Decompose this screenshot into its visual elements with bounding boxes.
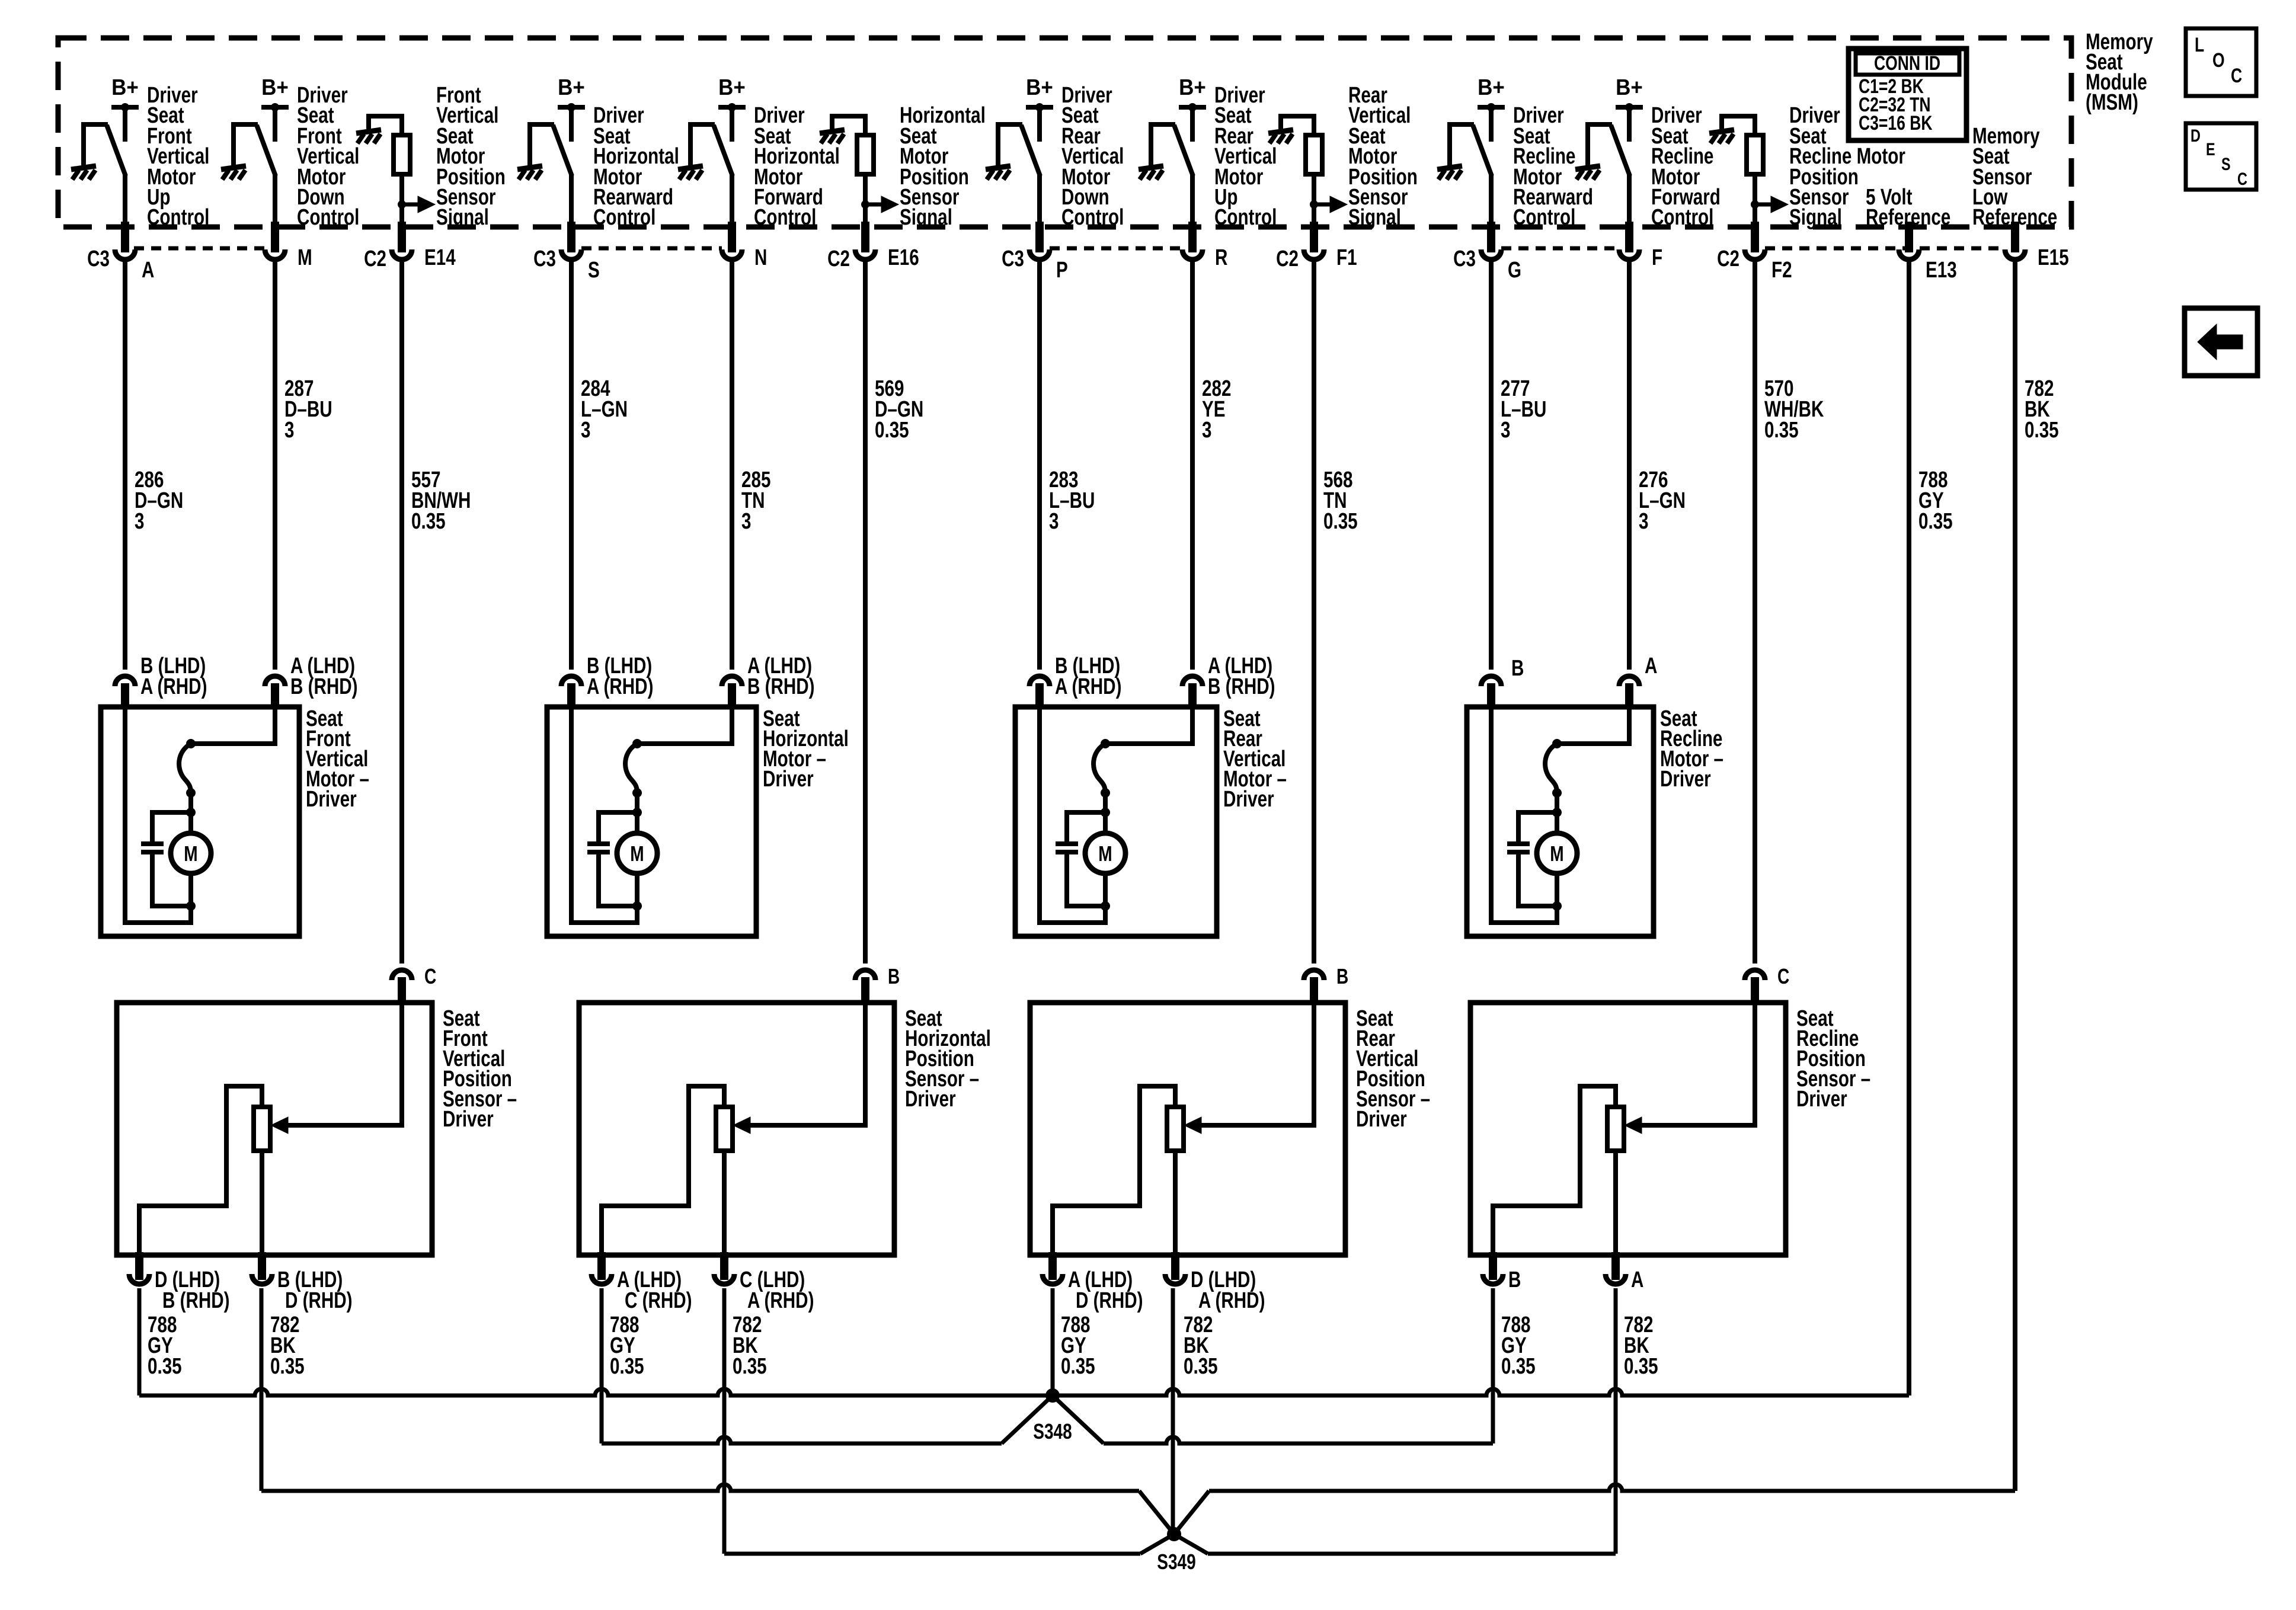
svg-text:Control: Control: [1651, 205, 1713, 230]
MSM connector pin G: [1487, 222, 1495, 252]
svg-text:Control: Control: [1061, 205, 1124, 230]
svg-text:C2: C2: [1276, 247, 1299, 271]
potentiometer resistor: [1607, 1107, 1624, 1151]
motor suppression capacitor: [1056, 841, 1078, 846]
svg-text:B: B: [1508, 1267, 1521, 1292]
svg-text:0.35: 0.35: [411, 509, 446, 534]
MSM connector pin M: [271, 222, 279, 252]
svg-text:3: 3: [741, 509, 751, 534]
motor suppression capacitor: [141, 841, 164, 846]
wire 284 L–GN from pin: [569, 262, 574, 670]
svg-text:Control: Control: [297, 205, 359, 230]
svg-text:D (RHD): D (RHD): [285, 1288, 353, 1313]
sensor input connector pin for Seat Rear Vertical Position Sensor – Driver: [1304, 970, 1324, 980]
motor connector pins Seat Recline Motor – Driver: [1481, 676, 1501, 686]
motor return wire: [125, 707, 191, 923]
svg-text:B+: B+: [111, 75, 139, 100]
motor armature circle M: [1537, 833, 1577, 873]
MSM connector pin P: [1035, 222, 1044, 252]
svg-text:P: P: [1056, 258, 1068, 283]
svg-text:Driver: Driver: [1223, 787, 1274, 812]
svg-text:B+: B+: [558, 75, 585, 100]
splice S349: [1167, 1527, 1181, 1541]
svg-text:C2: C2: [827, 247, 850, 271]
CONN ID table box: [1849, 49, 1966, 140]
MSM connector pin R: [1188, 222, 1197, 252]
GY bus from sensor1-D to E13: [139, 1389, 1909, 1395]
svg-text:B: B: [888, 965, 900, 988]
svg-text:B+: B+: [1026, 75, 1053, 100]
svg-text:N: N: [754, 245, 767, 270]
sensor output pins: [1048, 1252, 1057, 1280]
svg-text:E14: E14: [424, 245, 456, 270]
S349 diagonal upper-right: [1174, 1491, 1209, 1534]
svg-text:R: R: [1215, 245, 1227, 270]
BK branch right to sensor4-A: [1208, 1552, 1616, 1556]
wire 782 BK sensor3 pin D down to S349: [1171, 1288, 1175, 1534]
potentiometer resistor: [716, 1107, 733, 1151]
svg-text:E15: E15: [2038, 245, 2069, 270]
back-arrow legend box: [2185, 308, 2257, 376]
S349 diagonal upper-left: [1139, 1491, 1174, 1534]
wire 568 TN from pin: [1312, 262, 1316, 964]
svg-text:B (RHD): B (RHD): [162, 1288, 230, 1313]
BK branch left from sensor2-C: [724, 1552, 1140, 1556]
motor box Seat Recline Motor – Driver: [1467, 707, 1654, 936]
svg-text:O: O: [2212, 49, 2225, 72]
wire 570 WH/BK from pin: [1753, 262, 1757, 964]
Memory Seat Module (MSM) dashed outline box: [58, 38, 2071, 227]
svg-text:C2: C2: [364, 247, 386, 271]
svg-text:CONN ID: CONN ID: [1874, 52, 1940, 75]
MSM connector pin S: [567, 222, 575, 252]
motor armature circle M: [617, 833, 657, 873]
svg-text:C3: C3: [533, 247, 556, 271]
potentiometer wiper arrow: [749, 986, 865, 1125]
motor armature circle M: [171, 833, 211, 873]
MSM connector pin F1: [1310, 222, 1318, 252]
potentiometer element wiring: [1053, 1086, 1175, 1255]
sensor signal circuit Rear Vertical Seat Motor Position Sensor Signal: [1281, 116, 1314, 135]
svg-text:B (RHD): B (RHD): [1208, 674, 1275, 699]
motor commutator curve: [179, 744, 191, 793]
svg-text:3: 3: [284, 418, 294, 443]
svg-text:B: B: [1511, 656, 1524, 681]
svg-text:M: M: [184, 842, 197, 866]
svg-text:L: L: [2195, 34, 2204, 56]
svg-text:Driver: Driver: [1356, 1107, 1407, 1132]
S349 diagonal lower-right: [1174, 1534, 1208, 1554]
motor return wire: [1040, 707, 1105, 923]
motor connector pins Seat Rear Vertical Motor – Driver: [1029, 676, 1050, 686]
sensor signal circuit Horizontal Seat Motor Position Sensor Signal: [832, 116, 865, 135]
MSM connector pin E13: [1905, 222, 1913, 252]
svg-text:Control: Control: [593, 205, 655, 230]
svg-text:B+: B+: [718, 75, 746, 100]
sensor box Seat Horizontal Position Sensor – Driver: [579, 1003, 894, 1255]
svg-text:F: F: [1652, 245, 1662, 270]
svg-text:A (RHD): A (RHD): [140, 674, 207, 699]
svg-text:S: S: [2221, 154, 2231, 174]
S348 diagonal to left GY branch: [1002, 1395, 1053, 1443]
motor box Seat Front Vertical Motor – Driver: [101, 707, 299, 936]
GY branch right to sensor4-B: [1104, 1437, 1493, 1443]
potentiometer wiper arrow: [1200, 986, 1314, 1125]
svg-text:0.35: 0.35: [1624, 1354, 1658, 1379]
motor suppression capacitor: [587, 841, 610, 846]
wire 782 BK sensor4 pin A down: [1614, 1288, 1618, 1554]
svg-text:3: 3: [135, 509, 144, 534]
svg-text:0.35: 0.35: [148, 1354, 182, 1379]
svg-text:0.35: 0.35: [1764, 418, 1799, 443]
svg-text:Driver: Driver: [905, 1087, 956, 1112]
wire 788 GY sensor2 pin A down: [600, 1288, 604, 1443]
wire 788 GY sensor1 pin D down to GY bus: [137, 1288, 142, 1395]
svg-text:A (RHD): A (RHD): [747, 1288, 814, 1313]
DESC legend box: [2186, 123, 2256, 190]
wire 569 D–GN from pin: [863, 262, 868, 964]
svg-text:B (RHD): B (RHD): [747, 674, 815, 699]
svg-text:E13: E13: [1926, 258, 1957, 283]
svg-text:B+: B+: [261, 75, 289, 100]
potentiometer element wiring: [139, 1086, 262, 1255]
svg-text:F2: F2: [1771, 258, 1792, 283]
sensor output pins: [135, 1252, 143, 1280]
potentiometer element wiring: [602, 1086, 724, 1255]
svg-text:S: S: [588, 258, 600, 283]
S348 diagonal to right GY branch: [1053, 1395, 1104, 1443]
wire 282 YE from pin: [1190, 262, 1195, 670]
potentiometer element wiring: [1493, 1086, 1616, 1255]
motor internal wiring: [191, 707, 275, 744]
svg-text:(MSM): (MSM): [2086, 90, 2138, 115]
MSM connector pin E15: [2011, 222, 2019, 252]
BK bus left from sensor1-B: [261, 1484, 1139, 1491]
svg-text:M: M: [298, 245, 312, 270]
connector dashed line S-N: [581, 247, 722, 251]
svg-text:D: D: [2191, 126, 2201, 145]
svg-text:C3: C3: [87, 247, 110, 271]
potentiometer resistor: [254, 1107, 270, 1151]
svg-text:C3: C3: [1453, 247, 1476, 271]
MSM connector pin F2: [1751, 222, 1759, 252]
connector dashed line A-M: [134, 247, 265, 251]
svg-text:E16: E16: [888, 245, 919, 270]
svg-text:A: A: [142, 258, 154, 283]
BK bus right to E15: [1209, 1484, 2015, 1491]
wire 782 BK from pin: [2013, 262, 2017, 1491]
connector dashed line G-F: [1501, 247, 1619, 251]
svg-text:Signal: Signal: [900, 205, 952, 230]
svg-text:0.35: 0.35: [270, 1354, 305, 1379]
sensor input connector pin for Seat Recline Position Sensor – Driver: [1745, 970, 1765, 980]
svg-text:3: 3: [1501, 418, 1510, 443]
svg-text:A (RHD): A (RHD): [1055, 674, 1121, 699]
potentiometer wiper arrow: [1641, 986, 1755, 1125]
svg-text:B (RHD): B (RHD): [290, 674, 358, 699]
sensor output pins: [1489, 1252, 1497, 1280]
sensor box Seat Rear Vertical Position Sensor – Driver: [1030, 1003, 1345, 1255]
svg-text:D (RHD): D (RHD): [1076, 1288, 1143, 1313]
wire 285 TN from pin: [730, 262, 734, 670]
motor commutator curve: [1093, 744, 1105, 793]
motor armature circle M: [1085, 833, 1125, 873]
svg-text:M: M: [1550, 842, 1563, 866]
svg-text:M: M: [1098, 842, 1112, 866]
svg-text:Driver: Driver: [763, 767, 814, 792]
svg-text:Control: Control: [1513, 205, 1575, 230]
motor connector pins Seat Front Vertical Motor – Driver: [115, 676, 135, 686]
svg-text:0.35: 0.35: [2025, 418, 2059, 443]
svg-text:C2: C2: [1717, 247, 1739, 271]
MSM connector pin A: [121, 222, 129, 252]
sensor input connector pin for Seat Horizontal Position Sensor – Driver: [855, 970, 875, 980]
svg-text:Signal: Signal: [1789, 205, 1842, 230]
wire 557 BN/WH from pin: [399, 262, 404, 964]
left arrow icon: [2198, 324, 2243, 360]
LOC legend box: [2186, 28, 2256, 96]
wire 782 BK sensor2 pin C down: [722, 1288, 727, 1554]
potentiometer resistor: [1167, 1107, 1184, 1151]
svg-text:A (RHD): A (RHD): [1198, 1288, 1265, 1313]
svg-text:Control: Control: [147, 205, 209, 230]
svg-text:A: A: [1631, 1267, 1643, 1292]
motor return wire: [1491, 707, 1557, 923]
svg-text:F1: F1: [1336, 245, 1357, 270]
svg-text:C: C: [424, 965, 436, 988]
MSM connector pin E16: [861, 222, 869, 252]
svg-text:Driver: Driver: [1796, 1087, 1847, 1112]
sensor box Seat Front Vertical Position Sensor – Driver: [117, 1003, 432, 1255]
svg-text:0.35: 0.35: [1501, 1354, 1536, 1379]
svg-text:C3=16 BK: C3=16 BK: [1859, 112, 1933, 135]
wire 287 D–BU from pin: [273, 262, 277, 670]
svg-text:0.35: 0.35: [1323, 509, 1358, 534]
wire 788 GY sensor4 pin B down: [1491, 1288, 1495, 1443]
motor box Seat Rear Vertical Motor – Driver: [1015, 707, 1217, 936]
motor internal wiring: [637, 707, 732, 744]
motor return wire: [571, 707, 637, 923]
wire 788 GY sensor3 pin A down to S348: [1051, 1288, 1055, 1395]
svg-text:B+: B+: [1478, 75, 1505, 100]
sensor signal circuit Front Vertical Seat Motor Position Sensor Signal: [369, 116, 402, 135]
svg-text:G: G: [1508, 258, 1521, 283]
svg-text:C: C: [2237, 169, 2247, 188]
motor commutator curve: [625, 744, 637, 793]
svg-text:E: E: [2206, 139, 2215, 159]
svg-text:Driver: Driver: [306, 787, 357, 812]
motor internal wiring: [1105, 707, 1192, 744]
svg-text:C3: C3: [1002, 247, 1024, 271]
wire 276 L–GN from pin: [1627, 262, 1632, 670]
svg-text:0.35: 0.35: [1061, 1354, 1095, 1379]
svg-text:S348: S348: [1033, 1420, 1072, 1443]
connector dashed line F2-E15: [1765, 247, 2005, 251]
wire 277 L–BU from pin: [1489, 262, 1494, 670]
MSM connector pin F: [1625, 222, 1633, 252]
svg-text:Control: Control: [1214, 205, 1277, 230]
svg-text:3: 3: [1049, 509, 1059, 534]
sensor output pins: [597, 1252, 606, 1280]
motor connector pins Seat Horizontal Motor – Driver: [561, 676, 581, 686]
wire 283 L–BU from pin: [1037, 262, 1042, 670]
svg-text:B+: B+: [1616, 75, 1643, 100]
connector dashed line P-R: [1050, 247, 1182, 251]
potentiometer wiper arrow: [287, 986, 402, 1125]
svg-text:3: 3: [581, 418, 590, 443]
MSM connector pin E14: [398, 222, 406, 252]
svg-text:M: M: [630, 842, 644, 866]
S349 diagonal lower-left: [1140, 1534, 1174, 1554]
svg-text:0.35: 0.35: [875, 418, 909, 443]
wire 782 BK sensor1 pin B down to BK bus: [260, 1288, 264, 1491]
svg-text:0.35: 0.35: [1918, 509, 1953, 534]
svg-text:0.35: 0.35: [1184, 1354, 1218, 1379]
svg-text:A (RHD): A (RHD): [587, 674, 653, 699]
GY branch left from sensor2-A: [602, 1437, 1002, 1443]
svg-text:C (RHD): C (RHD): [625, 1288, 692, 1313]
svg-text:A: A: [1645, 654, 1657, 678]
motor internal wiring: [1557, 707, 1629, 744]
svg-text:Driver: Driver: [1660, 767, 1711, 792]
svg-text:C: C: [1777, 965, 1789, 988]
svg-text:0.35: 0.35: [610, 1354, 644, 1379]
motor suppression capacitor: [1507, 841, 1530, 846]
svg-text:3: 3: [1202, 418, 1211, 443]
motor commutator curve: [1545, 744, 1557, 793]
svg-text:B: B: [1336, 965, 1348, 988]
svg-text:Driver: Driver: [443, 1107, 494, 1132]
svg-text:Signal: Signal: [1348, 205, 1401, 230]
wire 788 GY from pin: [1907, 262, 1911, 1395]
svg-text:3: 3: [1639, 509, 1648, 534]
sensor input connector pin for Seat Front Vertical Position Sensor – Driver: [392, 970, 412, 980]
wire 286 D–GN from pin: [123, 262, 127, 670]
sensor box Seat Recline Position Sensor – Driver: [1470, 1003, 1786, 1255]
sensor signal circuit Driver Seat Recline Motor Position Sensor Signal: [1722, 116, 1755, 135]
motor box Seat Horizontal Motor – Driver: [547, 707, 756, 936]
splice S348: [1045, 1388, 1060, 1403]
svg-text:Signal: Signal: [436, 205, 489, 230]
svg-text:B+: B+: [1179, 75, 1206, 100]
svg-text:C: C: [2231, 65, 2242, 87]
MSM connector pin N: [728, 222, 736, 252]
svg-text:Control: Control: [754, 205, 816, 230]
svg-text:S349: S349: [1157, 1550, 1196, 1574]
svg-text:0.35: 0.35: [733, 1354, 767, 1379]
